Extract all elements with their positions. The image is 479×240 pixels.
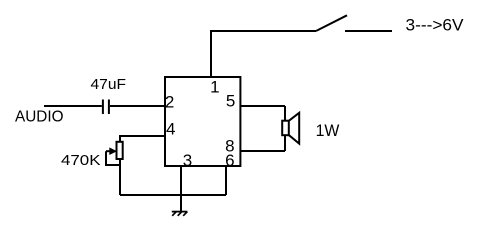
svg-text:470K: 470K bbox=[61, 152, 101, 169]
wire C1 right plate to pin 2 bbox=[110, 105, 165, 107]
potentiometer R1 body bbox=[117, 142, 123, 159]
wire ground bus horizontal bbox=[120, 194, 226, 196]
wire pin 4 to potentiometer top bbox=[120, 136, 165, 142]
wire wiper loop to bottom terminal bbox=[106, 151, 120, 165]
wire pin 1 riser and top supply run bbox=[211, 31, 316, 77]
wire pin 5 to speaker top bbox=[240, 105, 285, 107]
wire audio input to C1 left plate bbox=[44, 105, 102, 107]
potentiometer R1 wiper arrow bbox=[106, 147, 117, 155]
wire pin 8 to speaker bottom bbox=[240, 150, 285, 152]
switch S1 (open SPST) bbox=[316, 15, 392, 31]
svg-text:1: 1 bbox=[210, 77, 219, 96]
svg-text:2: 2 bbox=[165, 93, 174, 112]
wire speaker vertical link bbox=[284, 106, 286, 151]
svg-text:47uF: 47uF bbox=[91, 76, 127, 93]
svg-text:1W: 1W bbox=[316, 121, 340, 140]
speaker LS1 bbox=[282, 113, 299, 144]
wire pot bottom to ground bus bbox=[119, 159, 121, 195]
svg-text:4: 4 bbox=[166, 120, 175, 139]
svg-text:5: 5 bbox=[226, 92, 235, 111]
svg-text:AUDIO: AUDIO bbox=[15, 109, 64, 126]
capacitor C1 47uF bbox=[103, 100, 109, 115]
svg-text:3: 3 bbox=[183, 151, 192, 170]
svg-text:3--->6V: 3--->6V bbox=[406, 16, 465, 35]
op-amp IC U1 body bbox=[165, 77, 240, 166]
wire pin 6 riser to ground bus bbox=[225, 166, 227, 195]
ground symbol bbox=[172, 212, 188, 216]
wire pin 3 riser to ground bbox=[180, 166, 182, 212]
